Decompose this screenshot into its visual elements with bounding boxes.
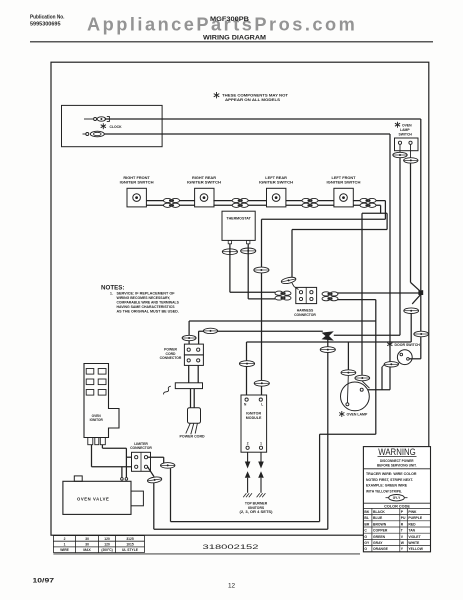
svg-text:30: 30: [85, 537, 89, 541]
svg-text:AS THE ORIGINAL MUST BE USED.: AS THE ORIGINAL MUST BE USED.: [117, 309, 179, 313]
svg-text:1.: 1.: [110, 291, 113, 295]
wire limiter to loop: [148, 456, 164, 458]
svg-text:BLUE: BLUE: [373, 516, 383, 520]
wire neutral trunk: [327, 340, 329, 347]
svg-text:THERMOSTAT: THERMOSTAT: [226, 217, 251, 221]
wire clock L1: [105, 118, 421, 120]
ignitor module: [241, 395, 267, 452]
svg-text:30: 30: [85, 543, 89, 547]
header rule: [30, 41, 433, 43]
svg-text:EXAMPLE: GREEN WIRE: EXAMPLE: GREEN WIRE: [366, 484, 408, 488]
svg-text:G: G: [364, 535, 367, 539]
svg-text:(200°C): (200°C): [101, 548, 112, 552]
svg-text:RED: RED: [408, 522, 416, 526]
clock label: [101, 123, 106, 129]
wire gauge table: [53, 535, 144, 537]
svg-text:BROWN: BROWN: [373, 522, 387, 526]
wire thermostat 2: [247, 244, 249, 299]
svg-text:GREEN: GREEN: [373, 535, 386, 539]
svg-text:LEFT REAR: LEFT REAR: [265, 176, 287, 180]
svg-text:WIRING BECOMES NECESSARY,: WIRING BECOMES NECESSARY,: [117, 296, 171, 300]
connector (power cord L): [203, 328, 217, 333]
svg-text:BK: BK: [364, 510, 369, 514]
svg-text:CLOCK: CLOCK: [110, 125, 123, 129]
svg-text:WIRE: WIRE: [60, 548, 69, 552]
svg-text:120: 120: [104, 543, 110, 547]
svg-text:RIGHT REAR: RIGHT REAR: [192, 176, 216, 180]
connector (module L): [254, 380, 269, 386]
svg-text:IGNITER SWITCH: IGNITER SWITCH: [187, 180, 221, 184]
svg-text:PU: PU: [401, 516, 406, 520]
svg-text:TAN: TAN: [408, 529, 415, 533]
harness connector: [296, 287, 317, 303]
svg-text:318002152: 318002152: [203, 544, 260, 551]
svg-text:3125: 3125: [126, 537, 134, 541]
svg-text:GY-Y: GY-Y: [393, 496, 401, 500]
svg-text:OVEN: OVEN: [402, 124, 412, 128]
svg-text:CONNECTOR: CONNECTOR: [130, 446, 152, 450]
svg-text:BL: BL: [364, 516, 369, 520]
svg-text:2: 2: [247, 442, 249, 446]
svg-text:WIRING DIAGRAM: WIRING DIAGRAM: [203, 35, 266, 42]
connector (harness feed): [281, 276, 297, 285]
svg-text:CONNECTOR: CONNECTOR: [294, 313, 316, 317]
connector pair C: [302, 198, 318, 207]
connector (limiter 2): [147, 476, 162, 484]
svg-text:PINK: PINK: [408, 510, 417, 514]
oven valve: [63, 481, 131, 514]
svg-text:1015: 1015: [126, 543, 134, 547]
svg-text:WARNING: WARNING: [378, 447, 416, 457]
svg-text:NOTED FIRST, STRIPE NEXT.: NOTED FIRST, STRIPE NEXT.: [366, 478, 413, 482]
connector (lamp top): [341, 370, 356, 376]
wire lamp feed diag: [361, 375, 363, 381]
connector (neutral trunk): [320, 347, 335, 353]
svg-text:Publication No.: Publication No.: [30, 14, 65, 20]
wire power cord L: [199, 330, 323, 332]
bottom rule: [53, 553, 360, 555]
connector pair B: [232, 198, 248, 207]
svg-text:CONNECTOR: CONNECTOR: [160, 356, 182, 360]
svg-text:IGNITORS: IGNITORS: [248, 506, 265, 510]
wire lamp return bottom: [154, 528, 328, 530]
svg-text:BLACK: BLACK: [373, 510, 385, 514]
oven lamp switch: [395, 138, 419, 151]
splice blob: [322, 331, 334, 340]
note: components may not appear: [214, 92, 220, 98]
warning box: [363, 447, 430, 552]
wire ignitor leg A: [91, 445, 93, 467]
connector pair A: [164, 198, 180, 207]
oven lamp switch label: [395, 122, 400, 128]
svg-text:LAMP: LAMP: [400, 128, 410, 132]
wire to ignitor module L: [384, 201, 386, 220]
svg-text:WHITE: WHITE: [408, 541, 420, 545]
top burner ignitor gaps: [247, 478, 249, 493]
connector (limiter 1): [161, 463, 175, 469]
wire harness neutral: [337, 299, 376, 301]
svg-text:APPEAR ON ALL MODELS: APPEAR ON ALL MODELS: [225, 98, 281, 102]
oven ignitor: [84, 364, 119, 438]
svg-text:IGNITOR: IGNITOR: [90, 418, 104, 422]
svg-text:SERVICE: IF REPLACEMENT OF: SERVICE: IF REPLACEMENT OF: [117, 291, 175, 295]
junction node: [418, 290, 423, 295]
wire clock L2: [104, 133, 390, 135]
svg-text:MODULE: MODULE: [246, 416, 262, 420]
svg-text:IGNITOR: IGNITOR: [246, 411, 261, 415]
svg-text:LEFT FRONT: LEFT FRONT: [332, 176, 357, 180]
wire lamp switch 1 down: [399, 158, 401, 336]
svg-text:COPPER: COPPER: [373, 529, 388, 533]
connector (thermostat 2): [241, 248, 256, 254]
svg-text:RIGHT FRONT: RIGHT FRONT: [123, 176, 150, 180]
wire thermostat 1: [229, 244, 231, 292]
svg-text:BEFORE SERVICING UNIT.: BEFORE SERVICING UNIT.: [377, 463, 417, 467]
thermostat: [222, 211, 255, 240]
spark output arrows: [247, 452, 249, 461]
connector pair (harness left): [275, 291, 291, 300]
wire power cord N: [188, 321, 190, 344]
connector (lamp feed): [355, 375, 370, 381]
diagram border frame: [51, 62, 429, 535]
svg-text:5995300695: 5995300695: [30, 22, 61, 28]
svg-text:HAVING SAME CHARACTERISTICS: HAVING SAME CHARACTERISTICS: [117, 305, 176, 309]
svg-text:OVEN LAMP: OVEN LAMP: [347, 413, 368, 417]
oven lamp: [341, 382, 370, 411]
connector pair (harness right): [322, 292, 338, 301]
svg-text:YELLOW: YELLOW: [408, 547, 423, 551]
svg-text:L: L: [261, 402, 263, 406]
wire lamp horizontal: [362, 389, 390, 391]
wire igniter row top: [146, 200, 194, 202]
wire blob to lamp switch: [334, 334, 400, 336]
svg-text:SWITCH: SWITCH: [399, 133, 413, 137]
svg-text:IGNITER SWITCH: IGNITER SWITCH: [120, 180, 154, 184]
wire limiter to lamp return: [148, 467, 154, 477]
wire branch to harness connector top: [386, 213, 388, 229]
wire ignitor leg C: [101, 445, 103, 449]
connector (lamp switch wire 2): [404, 158, 418, 163]
svg-text:120: 120: [104, 537, 110, 541]
wire lamp switch 2 down: [410, 163, 412, 282]
svg-text:GRAY: GRAY: [373, 541, 383, 545]
wire junction down to door switch: [420, 295, 422, 359]
color code table: [363, 502, 430, 504]
connector (door switch left): [384, 362, 398, 367]
svg-text:IGNITER SWITCH: IGNITER SWITCH: [327, 180, 361, 184]
svg-text:THESE COMPONENTS MAY NOT: THESE COMPONENTS MAY NOT: [222, 94, 289, 98]
tracer example oval: [386, 497, 390, 499]
svg-text:(2, 3, OR 4 SETS): (2, 3, OR 4 SETS): [240, 510, 273, 514]
svg-text:IGNITER SWITCH: IGNITER SWITCH: [259, 180, 293, 184]
power cord: [188, 365, 190, 382]
connector (power cord N): [182, 335, 196, 340]
connector (door switch wire): [414, 331, 429, 337]
svg-text:VIOLET: VIOLET: [408, 535, 421, 539]
svg-text:UL STYLE: UL STYLE: [122, 548, 139, 552]
svg-text:POWER CORD: POWER CORD: [180, 434, 206, 438]
svg-text:O: O: [364, 547, 367, 551]
svg-text:ORANGE: ORANGE: [373, 547, 389, 551]
svg-text:DOOR SWITCH: DOOR SWITCH: [395, 343, 421, 347]
connector pair D: [360, 198, 376, 207]
svg-text:MGF300PB: MGF300PB: [210, 17, 250, 23]
svg-text:GY: GY: [364, 541, 370, 545]
wire branch to lamp feed: [380, 205, 382, 213]
clock terminal top: [84, 118, 94, 120]
svg-text:BR: BR: [364, 522, 369, 526]
wire N bus: [410, 314, 412, 343]
wire valve terminal 1: [121, 467, 123, 478]
svg-text:WITH YELLOW STRIPE.: WITH YELLOW STRIPE.: [366, 489, 402, 493]
wire neutral loop bottom: [320, 433, 376, 435]
connector (thermostat 1): [222, 249, 237, 255]
connector (junction lower): [404, 308, 419, 314]
clock box: [62, 105, 163, 146]
strain relief clamp: [164, 386, 171, 394]
svg-text:12: 12: [228, 583, 236, 590]
connector (module N): [239, 361, 254, 367]
svg-text:COLOR CODE: COLOR CODE: [384, 504, 410, 508]
svg-text:2: 2: [64, 537, 66, 541]
wire igniter row bottom: [146, 204, 194, 206]
svg-text:1: 1: [64, 543, 66, 547]
svg-text:1: 1: [260, 442, 262, 446]
clock terminal bottom: [83, 133, 89, 135]
svg-text:TRACER WIRE: WIRE COLOR: TRACER WIRE: WIRE COLOR: [366, 472, 417, 476]
connector (mid line): [254, 267, 269, 273]
svg-text:DISCONNECT POWER: DISCONNECT POWER: [380, 459, 414, 463]
svg-text:PURPLE: PURPLE: [408, 516, 422, 520]
door switch: [387, 341, 392, 347]
svg-text:10/97: 10/97: [33, 577, 55, 584]
svg-text:OVEN VALVE: OVEN VALVE: [77, 497, 109, 502]
svg-text:COMPARABLE WIRE AND TERMINALS: COMPARABLE WIRE AND TERMINALS: [117, 300, 180, 304]
connector (lamp switch wire 1): [393, 152, 407, 157]
wire harness to junction: [337, 292, 419, 294]
svg-text:MAX: MAX: [83, 548, 91, 552]
